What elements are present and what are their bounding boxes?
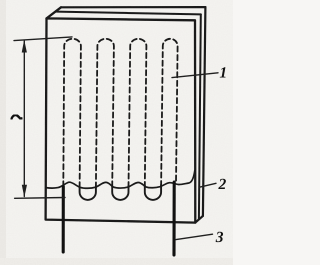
heating element hairpin D (dashed) [161,39,178,186]
case bottom-right corner diagonal [195,216,203,223]
case outer rear top edge [61,6,205,8]
dimension extension line top [14,37,72,41]
lead-out terminal right, item 3 [172,182,175,255]
case middle lid top edge [57,12,201,15]
dimension arrowhead top [22,40,27,53]
filler compound level (wavy line), item 2 [46,171,195,189]
element bottom U-loop 1 (solid, below filler level) [80,186,96,200]
element bottom U-loop 2 (solid) [112,186,128,200]
dimension line l [23,41,25,197]
label l (dimension) [11,115,21,119]
lead-out terminal left [62,187,65,253]
case outer rear right edge [203,7,206,216]
paper noise overlay [0,0,233,265]
case middle lid right edge [199,14,201,219]
paper background [0,0,233,265]
heating element hairpin B (dashed) [96,39,114,188]
heating element hairpin A (dashed) [63,39,81,188]
heating element hairpin C (dashed) [129,39,147,187]
leader line to 2 [200,183,217,187]
case top-left corner diagonal [47,7,62,18]
dimension arrowhead bottom [22,185,27,198]
leader line to 1 [172,73,218,78]
case front face [46,18,196,222]
dimension extension line bottom [15,197,65,200]
leader line to 3 [176,234,213,239]
element bottom U-loop 3 (solid) [145,185,161,200]
